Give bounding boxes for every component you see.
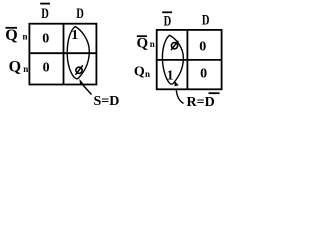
svg-text:D: D bbox=[76, 6, 84, 22]
label R=D-bar bbox=[187, 93, 220, 110]
right row label Q-n bbox=[134, 64, 150, 79]
svg-text:D: D bbox=[202, 13, 210, 29]
left grouping oval around 1 and phi bbox=[67, 27, 89, 79]
svg-text:S=D: S=D bbox=[94, 94, 120, 109]
right arrow to 1 bbox=[174, 81, 183, 104]
svg-text:0: 0 bbox=[43, 60, 50, 75]
left cell phi (row2 col2) bbox=[75, 65, 82, 74]
svg-text:n: n bbox=[23, 32, 28, 42]
svg-text:0: 0 bbox=[199, 39, 206, 54]
svg-text:D: D bbox=[164, 14, 172, 30]
left arrow to phi bbox=[79, 79, 91, 95]
svg-text:0: 0 bbox=[200, 66, 207, 81]
svg-text:n: n bbox=[150, 39, 155, 49]
left column header D-bar bbox=[40, 4, 50, 22]
left row label Q-n bbox=[9, 59, 29, 76]
left row label Qbar-n bbox=[5, 27, 27, 44]
svg-text:R=D: R=D bbox=[187, 95, 215, 110]
svg-text:0: 0 bbox=[42, 32, 49, 47]
right column header D-bar bbox=[162, 12, 172, 29]
svg-text:Q: Q bbox=[5, 27, 17, 44]
svg-text:Q: Q bbox=[9, 59, 21, 76]
right grouping oval around phi and 1 bbox=[162, 35, 183, 84]
svg-text:D: D bbox=[41, 6, 49, 22]
svg-text:n: n bbox=[145, 69, 150, 79]
right cell phi (row1 col1) bbox=[171, 41, 178, 50]
right row label Qbar-n bbox=[137, 36, 155, 52]
right K-map grid (R map) bbox=[156, 29, 222, 90]
svg-text:Q: Q bbox=[137, 36, 149, 52]
left K-map grid (S map) bbox=[29, 23, 98, 85]
svg-text:Q: Q bbox=[134, 64, 145, 79]
svg-text:n: n bbox=[23, 64, 28, 74]
